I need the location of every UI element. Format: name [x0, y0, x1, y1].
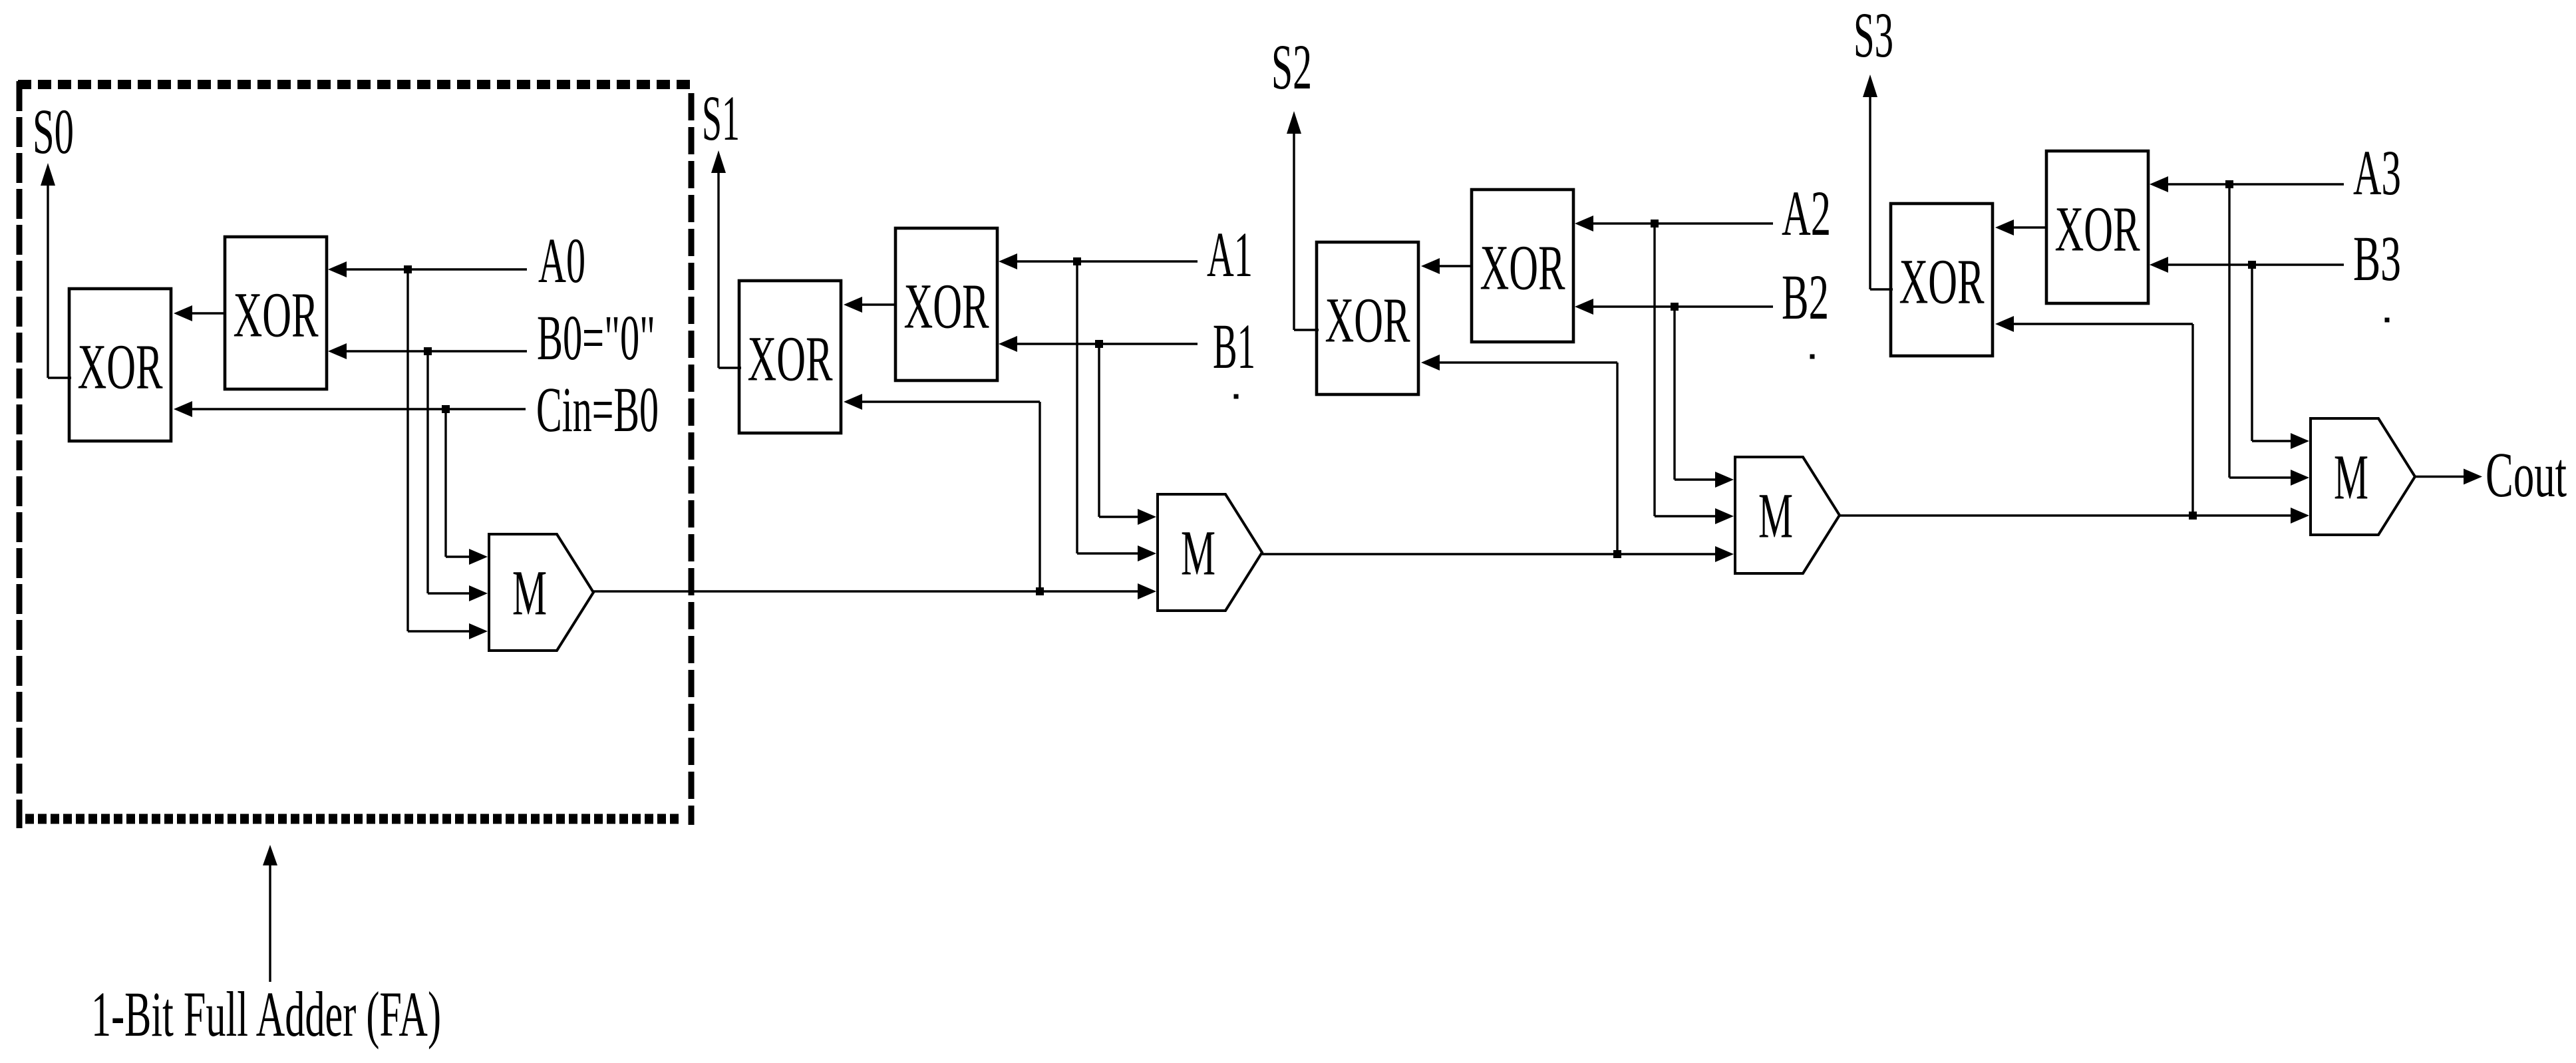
svg-text:Cin=B0: Cin=B0: [536, 374, 659, 445]
svg-text:XOR: XOR: [1899, 246, 1985, 317]
svg-text:1-Bit Full Adder (FA): 1-Bit Full Adder (FA): [91, 979, 441, 1050]
svg-text:M: M: [512, 557, 547, 629]
svg-text:XOR: XOR: [904, 271, 989, 342]
svg-text:A3: A3: [2353, 137, 2401, 208]
svg-text:Cout: Cout: [2486, 439, 2567, 510]
svg-text:M: M: [1181, 518, 1215, 589]
svg-text:M: M: [2334, 442, 2368, 513]
svg-text:S3: S3: [1853, 0, 1893, 71]
svg-text:XOR: XOR: [1480, 232, 1565, 303]
svg-text:A1: A1: [1207, 219, 1253, 290]
svg-text:M: M: [1758, 480, 1793, 551]
svg-text:B1: B1: [1213, 311, 1255, 382]
svg-text:XOR: XOR: [234, 279, 319, 351]
svg-text:A2: A2: [1782, 178, 1831, 249]
svg-text:S1: S1: [702, 82, 740, 154]
svg-text:XOR: XOR: [78, 331, 163, 402]
svg-text:B2: B2: [1782, 261, 1829, 333]
svg-text:S0: S0: [33, 96, 74, 167]
svg-text:XOR: XOR: [748, 323, 833, 394]
svg-text:S2: S2: [1271, 31, 1312, 102]
svg-text:A0: A0: [538, 225, 585, 296]
svg-text:B3: B3: [2353, 223, 2401, 294]
svg-text:XOR: XOR: [1325, 285, 1410, 356]
svg-text:XOR: XOR: [2055, 194, 2140, 265]
svg-text:B0="0": B0="0": [537, 302, 655, 373]
